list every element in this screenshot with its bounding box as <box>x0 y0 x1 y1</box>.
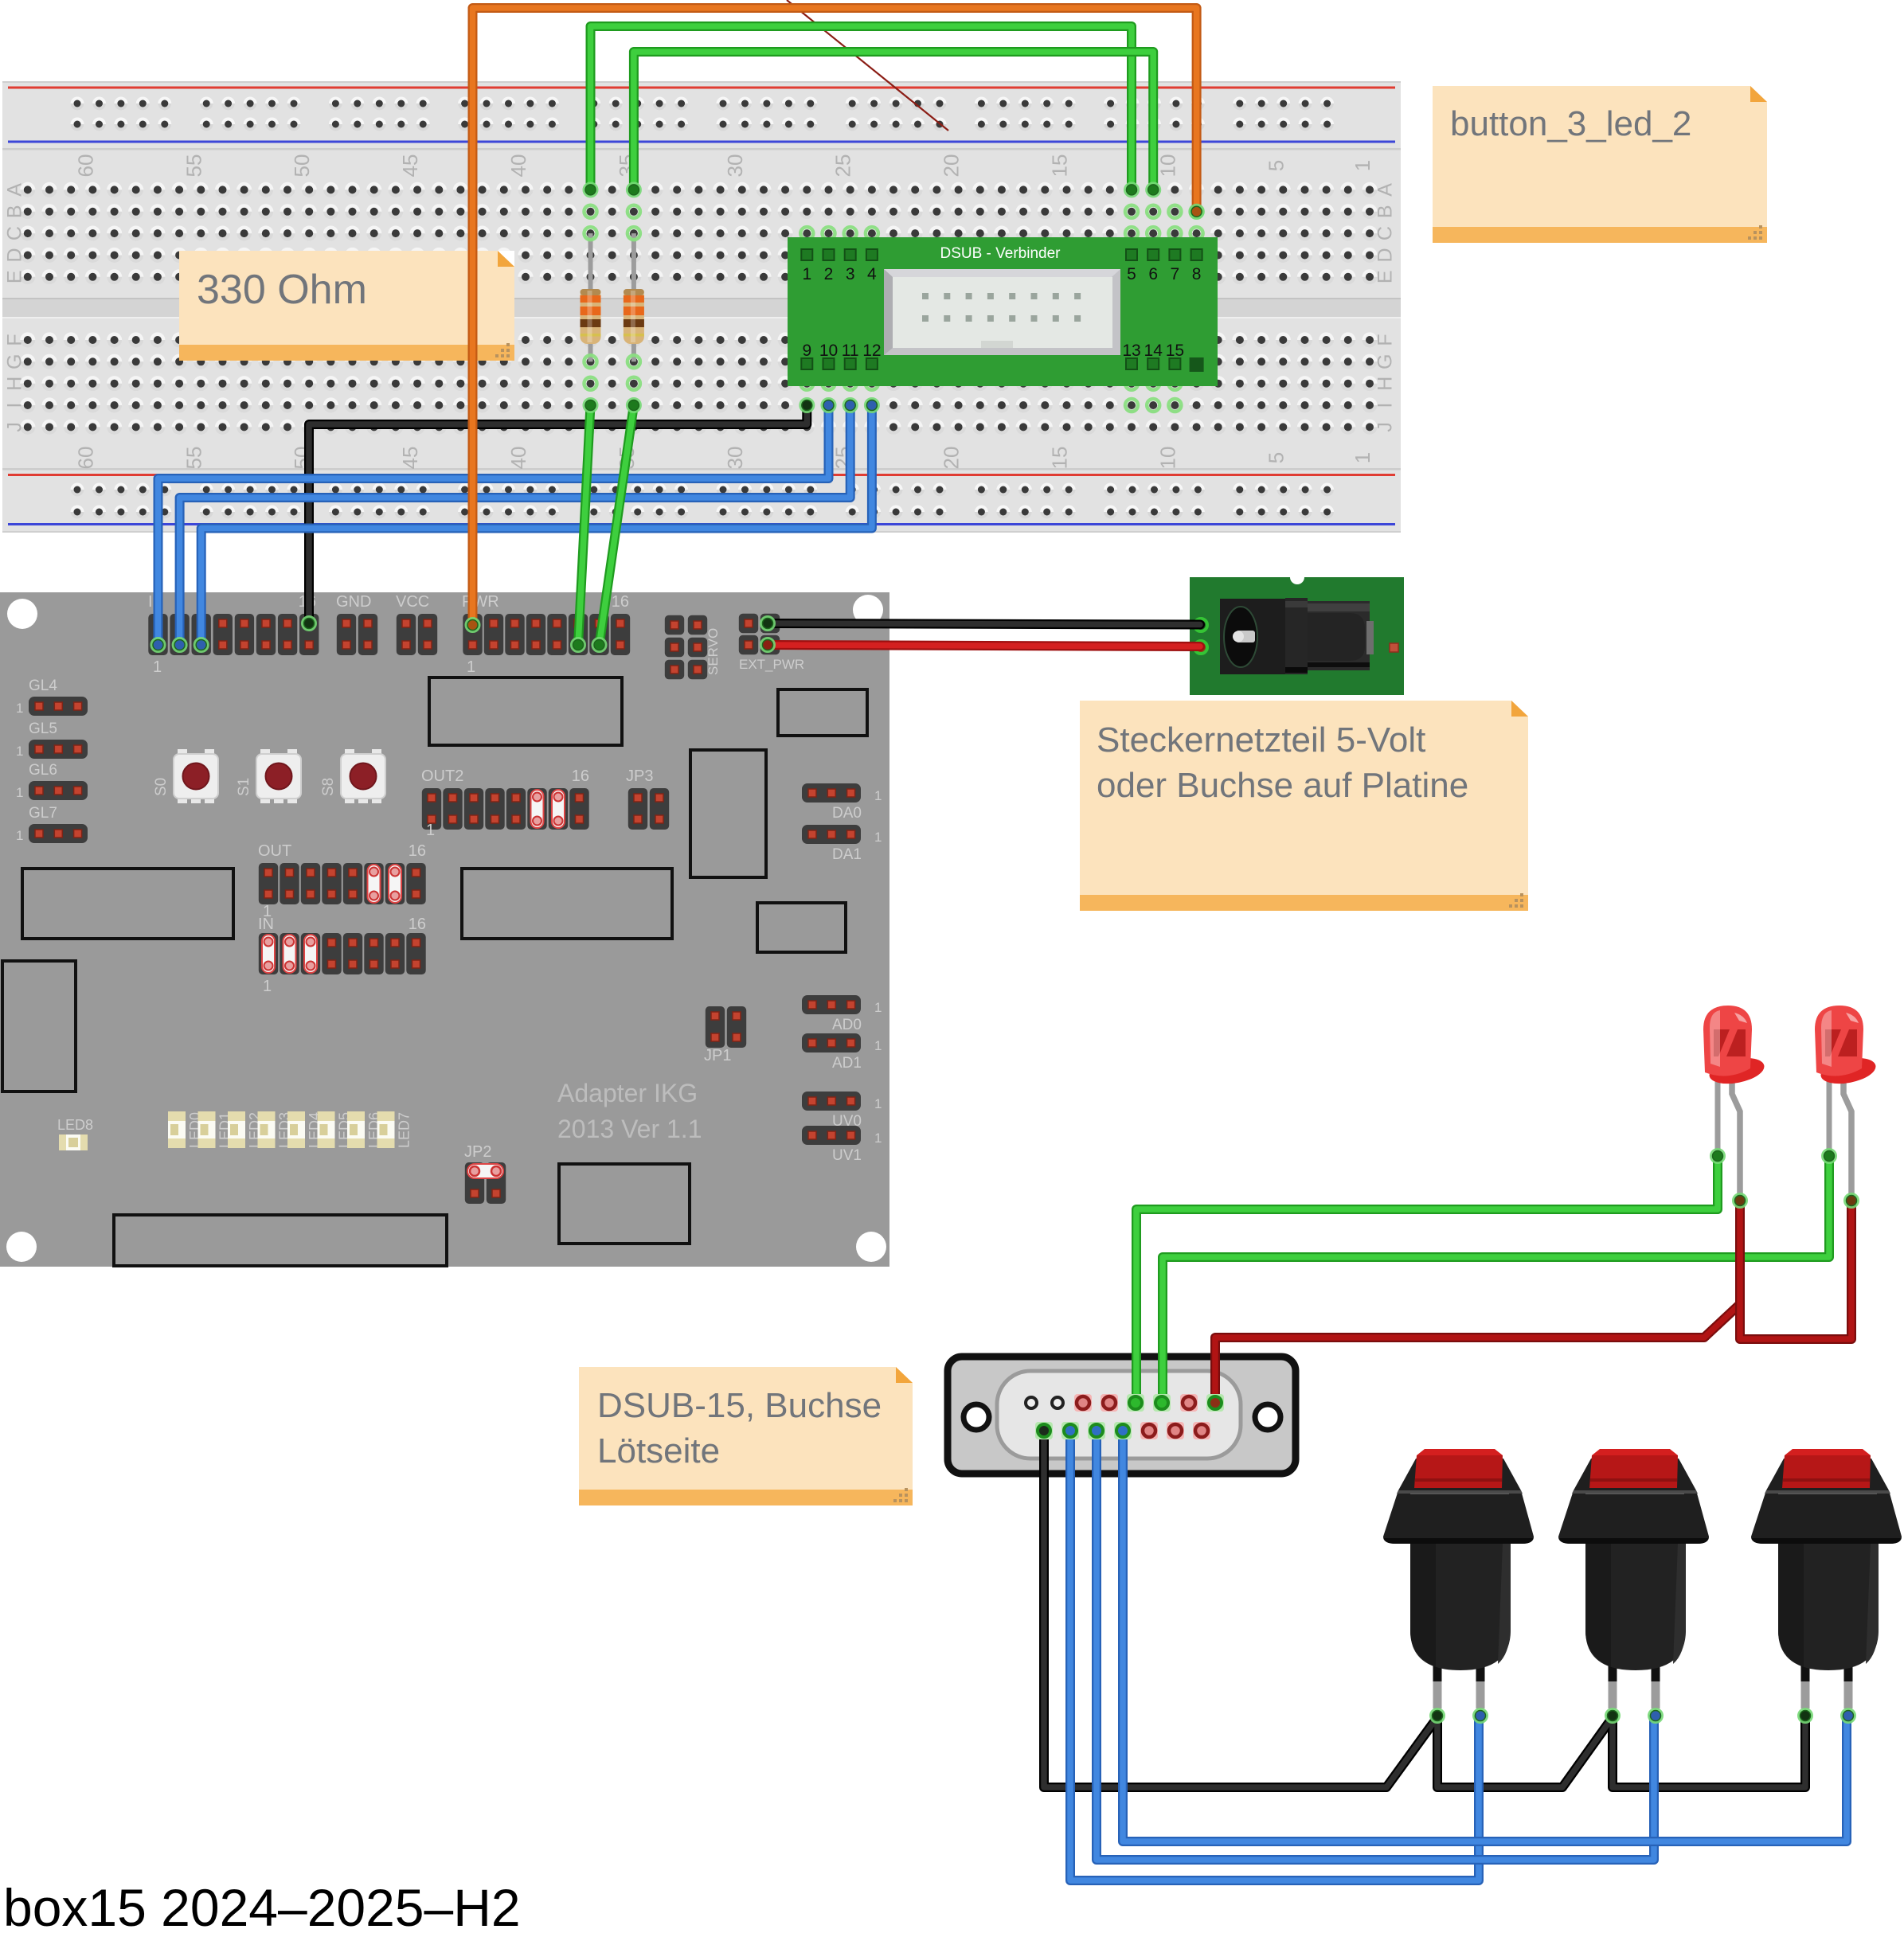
pushbutton SW2 red <box>1558 1449 1709 1709</box>
resistor R1 330 Ohm <box>581 227 601 368</box>
LED1 smd <box>198 1111 233 1148</box>
svg-text:I: I <box>1374 403 1397 408</box>
LED D2 red <box>1815 1006 1878 1201</box>
svg-text:2013 Ver 1.1: 2013 Ver 1.1 <box>557 1115 702 1143</box>
svg-text:1: 1 <box>16 744 23 759</box>
caption <box>3 1878 521 1937</box>
wire green LED1 to DSUB pin5 <box>1136 1150 1724 1403</box>
svg-text:LED7: LED7 <box>397 1112 412 1148</box>
svg-text:1: 1 <box>263 978 272 995</box>
svg-text:1: 1 <box>874 830 882 845</box>
svg-text:S8: S8 <box>320 778 337 796</box>
wire blue DSUB pin12 to button3 <box>1123 1431 1847 1841</box>
svg-text:JP3: JP3 <box>626 767 653 785</box>
silkscreen box 9 <box>559 1164 690 1244</box>
silkscreen box 2 <box>778 689 867 736</box>
DSUB-15 female connector <box>948 1357 1296 1474</box>
header AD1 <box>802 1033 882 1072</box>
svg-text:IN: IN <box>258 916 274 933</box>
svg-text:1: 1 <box>1351 160 1374 171</box>
LED D1 red <box>1703 1006 1766 1201</box>
svg-text:Steckernetzteil 5-Volt: Steckernetzteil 5-Volt <box>1097 721 1425 760</box>
svg-text:55: 55 <box>182 447 205 470</box>
svg-text:12: 12 <box>862 342 881 360</box>
svg-text:10: 10 <box>819 342 838 360</box>
svg-text:330 Ohm: 330 Ohm <box>197 267 367 313</box>
LED2 smd <box>228 1111 263 1148</box>
svg-text:1: 1 <box>16 785 23 800</box>
header DA1 <box>802 825 882 863</box>
svg-text:15: 15 <box>1048 154 1072 178</box>
svg-text:1: 1 <box>1351 452 1374 463</box>
header JP1 <box>704 1006 746 1064</box>
wire black DSUB pin9 to buttons <box>1044 1431 1805 1787</box>
DSUB-15 wired pins <box>1035 1394 1224 1439</box>
svg-text:OUT: OUT <box>258 842 291 860</box>
svg-text:LED8: LED8 <box>57 1117 93 1133</box>
svg-text:JP2: JP2 <box>464 1143 491 1161</box>
svg-text:button_3_led_2: button_3_led_2 <box>1450 104 1691 143</box>
svg-text:1: 1 <box>874 788 882 803</box>
svg-text:40: 40 <box>506 447 530 470</box>
svg-text:15: 15 <box>1048 447 1072 470</box>
svg-text:1: 1 <box>467 658 475 676</box>
svg-text:H: H <box>4 377 26 391</box>
svg-text:I: I <box>4 403 26 408</box>
svg-text:C: C <box>4 226 26 240</box>
svg-text:GND: GND <box>336 593 371 611</box>
resistor R2 330 Ohm <box>624 227 644 368</box>
silkscreen box 6 <box>757 903 846 952</box>
svg-text:9: 9 <box>802 342 811 360</box>
svg-text:1: 1 <box>426 822 435 839</box>
svg-text:10: 10 <box>1155 447 1179 470</box>
svg-text:GL7: GL7 <box>29 805 57 822</box>
wire black EXT_PWR to jack <box>761 617 1200 630</box>
svg-text:E: E <box>4 270 26 283</box>
svg-text:F: F <box>4 334 26 346</box>
svg-text:1: 1 <box>16 701 23 716</box>
header JP3 <box>626 767 669 830</box>
header VCC <box>396 593 437 655</box>
svg-text:G: G <box>1374 354 1397 369</box>
svg-text:1: 1 <box>16 828 23 843</box>
wire darkred LED anodes <box>1734 1194 1858 1339</box>
silkscreen box 3 <box>690 750 766 877</box>
LED7 smd <box>377 1111 412 1148</box>
wire darkred DSUB pin8 to LEDs <box>1215 1304 1740 1403</box>
svg-text:3: 3 <box>846 265 855 283</box>
svg-text:box15 2024–2025–H2: box15 2024–2025–H2 <box>3 1878 521 1937</box>
power jack PCB <box>1190 570 1404 695</box>
pushbutton S8 <box>320 749 385 803</box>
wire green top B <box>627 52 1160 197</box>
svg-text:2: 2 <box>824 265 834 283</box>
svg-text:10: 10 <box>1155 154 1179 178</box>
LED3 smd <box>258 1111 293 1148</box>
svg-text:1: 1 <box>874 1000 882 1015</box>
LED5 smd <box>318 1111 353 1148</box>
svg-text:5: 5 <box>1127 265 1136 283</box>
svg-text:B: B <box>1374 205 1397 218</box>
header DA0 <box>802 783 882 822</box>
svg-text:F: F <box>1374 334 1397 346</box>
svg-text:20: 20 <box>940 154 964 178</box>
svg-text:EXT_PWR: EXT_PWR <box>739 657 804 672</box>
node highlights <box>584 205 1203 412</box>
svg-text:AD1: AD1 <box>832 1055 862 1072</box>
button wire junctions <box>1431 1709 1855 1722</box>
header GND <box>336 593 377 655</box>
wire orange VCC <box>466 8 1203 631</box>
svg-text:UV1: UV1 <box>832 1147 862 1164</box>
svg-text:1: 1 <box>874 1096 882 1111</box>
wire red EXT_PWR to jack <box>761 639 1200 651</box>
svg-text:S0: S0 <box>153 778 170 796</box>
svg-text:1: 1 <box>874 1131 882 1146</box>
svg-text:15: 15 <box>1166 342 1184 360</box>
svg-text:25: 25 <box>831 154 855 178</box>
wire blue IN3 <box>195 399 879 651</box>
silkscreen box 4 <box>22 869 233 939</box>
silkscreen box 1 <box>429 678 622 745</box>
svg-text:8: 8 <box>1192 265 1202 283</box>
header OUT <box>258 842 426 920</box>
svg-text:SERVO: SERVO <box>706 628 721 675</box>
pushbutton SW1 red <box>1383 1449 1534 1709</box>
silkscreen box 7 <box>2 961 76 1092</box>
header GL7 <box>16 805 88 843</box>
LED0 smd <box>168 1111 203 1148</box>
svg-text:16: 16 <box>409 842 426 860</box>
svg-text:1: 1 <box>802 265 811 283</box>
header UV0 <box>802 1092 882 1130</box>
svg-text:DSUB-15, Buchse: DSUB-15, Buchse <box>597 1386 882 1425</box>
svg-text:60: 60 <box>73 154 97 178</box>
note 330 Ohm <box>179 251 514 361</box>
wire blue DSUB pin10 to button1 <box>1070 1431 1479 1880</box>
svg-text:B: B <box>4 205 26 218</box>
svg-text:1: 1 <box>874 1038 882 1053</box>
pushbutton S0 <box>153 749 218 803</box>
wire blue IN1 <box>151 399 835 651</box>
svg-text:11: 11 <box>842 342 859 360</box>
svg-text:A: A <box>1374 183 1397 197</box>
svg-text:14: 14 <box>1144 342 1163 360</box>
svg-text:DA0: DA0 <box>832 805 862 822</box>
svg-text:55: 55 <box>182 154 205 178</box>
svg-text:OUT2: OUT2 <box>421 767 463 785</box>
note button_3_led_2 <box>1433 86 1767 243</box>
svg-text:13: 13 <box>1122 342 1140 360</box>
svg-text:40: 40 <box>506 154 530 178</box>
svg-text:JP1: JP1 <box>704 1047 731 1064</box>
header OUT2 <box>421 767 589 839</box>
header GL4 <box>16 678 88 716</box>
svg-text:45: 45 <box>398 447 422 470</box>
LED4 smd <box>287 1111 323 1148</box>
pushbutton SW3 red <box>1751 1449 1902 1709</box>
breadboard <box>2 81 1401 533</box>
svg-text:DA1: DA1 <box>832 846 862 863</box>
svg-text:S1: S1 <box>236 778 252 796</box>
header JP2 <box>464 1143 506 1204</box>
svg-text:50: 50 <box>290 154 314 178</box>
svg-text:20: 20 <box>940 447 964 470</box>
svg-text:VCC: VCC <box>396 593 429 611</box>
note Steckernetzteil <box>1080 701 1528 911</box>
wire green top A <box>584 26 1138 197</box>
silkscreen box 5 <box>462 869 672 939</box>
wire blue DSUB pin11 to button2 <box>1097 1431 1654 1860</box>
svg-text:GL4: GL4 <box>29 678 57 694</box>
wire green PWR1 <box>572 399 597 651</box>
svg-text:E: E <box>1374 270 1397 283</box>
DSUB-Verbinder adapter PCB U2 <box>788 237 1218 386</box>
svg-text:4: 4 <box>867 265 877 283</box>
LED8 smd <box>57 1117 93 1150</box>
board title <box>557 1079 702 1143</box>
svg-text:DSUB - Verbinder: DSUB - Verbinder <box>940 245 1061 262</box>
wire black GND breadboard to adapter <box>303 399 814 630</box>
wire green PWR2 <box>592 399 640 651</box>
silkscreen box 8 <box>114 1215 447 1266</box>
svg-text:PWR: PWR <box>462 593 499 611</box>
header IN2 <box>258 916 426 995</box>
LED6 smd <box>347 1111 382 1148</box>
header UV1 <box>802 1126 882 1164</box>
header GL5 <box>16 721 88 759</box>
svg-text:D: D <box>1374 248 1397 262</box>
svg-text:5: 5 <box>1264 452 1288 463</box>
svg-text:60: 60 <box>73 447 97 470</box>
svg-text:Lötseite: Lötseite <box>597 1431 720 1470</box>
svg-text:6: 6 <box>1148 265 1158 283</box>
svg-text:J: J <box>4 422 26 432</box>
svg-text:GL6: GL6 <box>29 762 57 779</box>
svg-text:7: 7 <box>1171 265 1180 283</box>
svg-text:16: 16 <box>572 767 589 785</box>
svg-text:D: D <box>4 248 26 262</box>
note DSUB-15 <box>579 1367 913 1505</box>
header AD0 <box>802 995 882 1033</box>
svg-text:1: 1 <box>153 658 162 676</box>
svg-text:16: 16 <box>409 916 426 933</box>
svg-text:30: 30 <box>723 154 747 178</box>
header IN <box>148 593 319 676</box>
svg-text:Adapter IKG: Adapter IKG <box>557 1079 698 1107</box>
svg-text:A: A <box>4 183 26 197</box>
svg-text:H: H <box>1374 377 1397 391</box>
svg-text:16: 16 <box>612 593 629 611</box>
header EXT_PWR <box>739 614 804 672</box>
svg-text:5: 5 <box>1264 160 1288 171</box>
svg-text:GL5: GL5 <box>29 721 57 737</box>
header PWR <box>462 593 630 676</box>
ratsnest line <box>787 0 948 131</box>
svg-text:45: 45 <box>398 154 422 178</box>
svg-text:30: 30 <box>723 447 747 470</box>
svg-text:oder Buchse auf Platine: oder Buchse auf Platine <box>1097 766 1468 805</box>
wire blue IN2 <box>173 399 857 651</box>
svg-text:J: J <box>1374 422 1397 432</box>
svg-text:G: G <box>4 354 26 369</box>
wire green LED2 to DSUB pin6 <box>1163 1150 1836 1403</box>
header GL6 <box>16 762 88 800</box>
Adapter IKG board <box>0 592 889 1267</box>
pushbutton S1 <box>236 749 301 803</box>
svg-text:AD0: AD0 <box>832 1017 862 1033</box>
header SERVO <box>665 615 721 679</box>
svg-text:C: C <box>1374 226 1397 240</box>
